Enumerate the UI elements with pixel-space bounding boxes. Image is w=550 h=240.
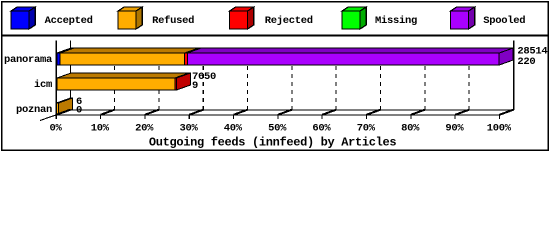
dashed gridline 20%	[158, 47, 160, 110]
legend cube Accepted	[11, 7, 35, 29]
svg-text:10%: 10%	[91, 123, 110, 135]
bar poznan : end cap	[59, 98, 73, 115]
svg-text:poznan: poznan	[16, 104, 52, 116]
dashed gridline 10%	[114, 47, 116, 110]
legend cube Spooled	[451, 7, 475, 29]
bar poznan : front face	[57, 103, 59, 115]
legend cube Rejected	[230, 7, 254, 29]
legend cube Missing	[342, 7, 366, 29]
svg-text:100%: 100%	[487, 123, 512, 135]
svg-text:Outgoing feeds (innfeed) by Ar: Outgoing feeds (innfeed) by Articles	[149, 135, 396, 149]
svg-text:Rejected: Rejected	[265, 15, 313, 27]
bar icm : end cap	[177, 73, 191, 90]
tick steps and ticks	[56, 110, 514, 120]
svg-text:70%: 70%	[357, 123, 376, 135]
outer border	[2, 2, 548, 150]
svg-text:Spooled: Spooled	[483, 15, 525, 27]
bar panorama : front faces	[57, 53, 60, 65]
bar poznan : top face	[57, 98, 73, 115]
svg-text:Accepted: Accepted	[45, 15, 93, 27]
legend separator line	[1, 34, 549, 36]
svg-text:30%: 30%	[179, 123, 198, 135]
dashed gridline 80%	[424, 47, 426, 110]
dashed gridline 50%	[291, 47, 293, 110]
svg-text:20%: 20%	[135, 123, 154, 135]
svg-text:50%: 50%	[268, 123, 287, 135]
dashed gridline 40%	[247, 47, 249, 110]
svg-text:9: 9	[192, 80, 198, 92]
svg-text:panorama: panorama	[4, 54, 53, 66]
x-axis front floor line	[56, 114, 500, 116]
bar panorama : top faces	[57, 48, 513, 65]
dashed gridline 70%	[379, 47, 381, 110]
dashed gridline 90%	[468, 47, 470, 110]
x-axis back floor line	[71, 109, 514, 111]
svg-text:80%: 80%	[401, 123, 420, 135]
svg-text:Missing: Missing	[375, 15, 417, 27]
svg-text:Refused: Refused	[152, 15, 194, 27]
svg-text:90%: 90%	[445, 123, 464, 135]
dashed gridline 30%	[202, 47, 204, 110]
dashed gridline 60%	[335, 47, 337, 110]
axis tail diagonal	[40, 114, 58, 120]
svg-text:220: 220	[517, 56, 535, 68]
svg-text:icm: icm	[34, 79, 52, 91]
legend cube Refused	[118, 7, 142, 29]
svg-text:0%: 0%	[49, 123, 62, 135]
back wall line 100%	[513, 41, 515, 111]
bar icm : front faces	[57, 78, 175, 90]
bar panorama : end cap	[499, 48, 513, 65]
svg-text:60%: 60%	[312, 123, 331, 135]
svg-text:40%: 40%	[224, 123, 243, 135]
bar icm : top face	[57, 73, 191, 90]
svg-text:0: 0	[76, 104, 82, 116]
back wall line 0%	[70, 41, 72, 111]
y-axis line	[55, 41, 57, 116]
